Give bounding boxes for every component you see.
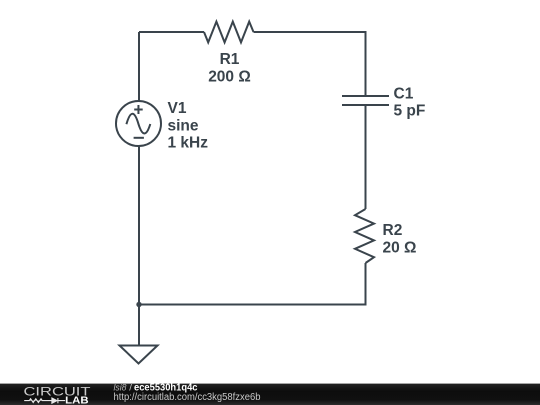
svg-text:sine: sine — [168, 117, 199, 134]
svg-text:1 kHz: 1 kHz — [168, 135, 209, 152]
svg-text:5 pF: 5 pF — [394, 102, 426, 119]
wire source bottom to node — [138, 146, 140, 305]
svg-text:200 Ω: 200 Ω — [208, 69, 251, 86]
V1 minus sign — [134, 137, 144, 139]
resistor R2 — [355, 209, 374, 263]
svg-text:LAB: LAB — [65, 395, 88, 405]
voltage source V1 circle — [116, 101, 161, 146]
wire right-bottom from R2 to corner to node — [139, 263, 366, 305]
logo squiggle resistor-diode — [24, 398, 65, 403]
svg-text:C1: C1 — [394, 86, 414, 103]
wire right between C1 and R2 — [365, 105, 367, 209]
V1 sine wave — [126, 114, 150, 134]
svg-text:R1: R1 — [220, 51, 240, 68]
svg-text:V1: V1 — [168, 100, 187, 117]
footer bar — [0, 384, 540, 405]
capacitor C1 — [342, 96, 389, 105]
wire node to ground — [138, 305, 140, 346]
wire top-right from R1 to corner down to C1 — [254, 32, 366, 96]
svg-text:R2: R2 — [383, 222, 403, 239]
V1 plus sign — [134, 105, 143, 114]
resistor R1 — [204, 22, 254, 43]
node junction dot — [136, 302, 141, 307]
svg-text:20 Ω: 20 Ω — [383, 240, 417, 257]
wire top-left from corner to R1 — [139, 32, 204, 101]
svg-text:http://circuitlab.com/cc3kg58f: http://circuitlab.com/cc3kg58fzxe6b — [114, 392, 262, 403]
ground — [120, 346, 158, 364]
